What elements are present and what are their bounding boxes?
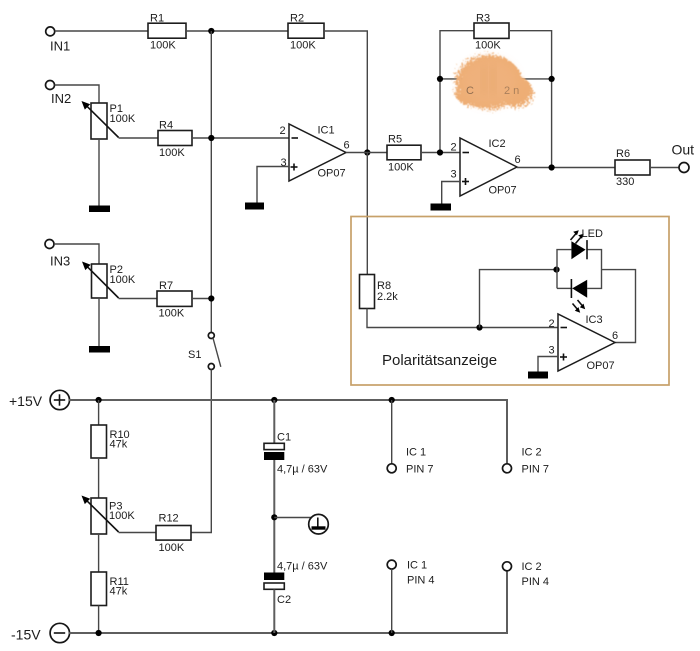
node rail/IC1pin7 — [389, 397, 395, 403]
wire +15V rail — [69, 400, 507, 464]
ground P1 — [89, 206, 110, 213]
svg-text:R3: R3 — [476, 12, 490, 24]
node junction R4/bus — [208, 135, 214, 141]
diode LED top (pointing right) — [571, 240, 587, 259]
wire IC2 pin3 to ground — [442, 182, 460, 205]
wire R5 to IC2 pin2 — [421, 152, 460, 154]
svg-text:3: 3 — [451, 169, 457, 181]
svg-text:4,7µ / 63V: 4,7µ / 63V — [277, 464, 328, 476]
switch S1 — [188, 333, 221, 370]
svg-text:100K: 100K — [290, 40, 316, 52]
wire feedback left vertical — [440, 31, 474, 153]
resistor R1 — [148, 13, 186, 52]
wire P2 to ground — [98, 298, 100, 346]
svg-text:OP07: OP07 — [587, 360, 615, 372]
svg-text:IN3: IN3 — [50, 254, 70, 269]
svg-text:IC 1: IC 1 — [406, 447, 426, 459]
wire across blob — [440, 78, 552, 80]
node junction R5/feedback — [437, 149, 443, 155]
svg-text:4,7µ / 63V: 4,7µ / 63V — [277, 561, 328, 573]
svg-text:100K: 100K — [159, 147, 185, 159]
wire R4 to IC1 pin2 — [192, 137, 289, 139]
op-amp IC3 — [558, 314, 615, 372]
svg-text:IN2: IN2 — [51, 91, 71, 106]
svg-text:100K: 100K — [110, 113, 136, 125]
wire P1 wiper to R4 — [119, 137, 158, 139]
svg-text:2.2k: 2.2k — [377, 291, 398, 303]
wire R1 to R2 — [186, 30, 288, 32]
svg-text:6: 6 — [344, 140, 350, 152]
svg-text:C2: C2 — [277, 594, 291, 606]
capacitor C2 — [264, 561, 328, 607]
wire IN2 to P1 — [55, 85, 99, 103]
svg-text:6: 6 — [515, 154, 521, 166]
svg-text:R4: R4 — [159, 120, 173, 132]
op-amp IC2 — [460, 138, 517, 197]
wire P1 to ground — [98, 139, 100, 206]
wire to earth symbol — [274, 517, 318, 519]
wire R10 top lead — [98, 400, 100, 425]
op-amp IC1 — [289, 124, 346, 181]
wire LED pair to IC3 output — [602, 270, 636, 343]
wire R6 to Out — [650, 167, 679, 169]
svg-text:2: 2 — [549, 318, 555, 330]
wire branch up to LED pair — [480, 270, 557, 328]
node earth junction — [271, 514, 277, 520]
wire S1 down to R12 — [191, 370, 211, 533]
svg-text:3: 3 — [549, 345, 555, 357]
potentiometer P2 — [82, 262, 136, 299]
terminal IC1 pin4 — [387, 560, 434, 587]
svg-text:R7: R7 — [159, 280, 173, 292]
svg-text:R5: R5 — [388, 134, 402, 146]
svg-text:+15V: +15V — [9, 393, 43, 409]
terminal IN1 — [46, 27, 71, 54]
blob watermark — [455, 55, 533, 109]
svg-text:100K: 100K — [109, 510, 135, 522]
wire IC1 pin4 stub — [391, 569, 393, 633]
potentiometer P1 — [82, 101, 136, 139]
wire IN1 to R1 — [55, 30, 148, 32]
node IC1 output junction — [364, 149, 370, 155]
node LED pair left — [553, 267, 559, 273]
svg-text:OP07: OP07 — [489, 185, 517, 197]
wire IC1 output to R5 — [346, 152, 387, 154]
node rail/C2 — [271, 630, 277, 636]
resistor R8 — [360, 275, 399, 309]
wire IC1 pin7 stub — [391, 400, 393, 464]
wire P3 to R11 — [98, 534, 100, 572]
wire R8 to IC3 pin2 — [367, 309, 558, 328]
terminal IC1 pin7 — [387, 447, 433, 476]
resistor R4 — [158, 120, 192, 160]
terminal IN2 — [46, 81, 72, 107]
wire IC3 pin3 to ground — [538, 357, 558, 373]
svg-text:-15V: -15V — [11, 627, 41, 643]
svg-text:Polaritätsanzeige: Polaritätsanzeige — [382, 352, 497, 369]
terminal Out — [672, 142, 695, 173]
terminal IC2 pin4 — [503, 561, 550, 588]
node rail/R10 — [96, 397, 102, 403]
diode LED bottom (pointing left) — [571, 279, 587, 298]
node junction R7/bus — [208, 295, 214, 301]
node junction output/feedback right — [549, 164, 555, 170]
node rail/C1 — [271, 397, 277, 403]
wire R10 to P3 — [98, 458, 100, 498]
node blob right — [549, 76, 555, 82]
svg-text:R2: R2 — [290, 13, 304, 25]
wire C2 bottom lead — [273, 590, 275, 633]
svg-text:R6: R6 — [616, 148, 630, 160]
resistor R7 — [157, 280, 192, 320]
node junction R1/R2 — [208, 28, 214, 34]
earth symbol — [309, 514, 329, 534]
svg-text:IC3: IC3 — [586, 314, 603, 326]
resistor R5 — [387, 134, 421, 174]
wire IC2 output to R6 — [517, 167, 615, 169]
svg-text:PIN 4: PIN 4 — [407, 575, 435, 587]
svg-text:C1: C1 — [277, 432, 291, 444]
svg-text:OP07: OP07 — [318, 168, 346, 180]
svg-text:S1: S1 — [188, 349, 201, 361]
svg-text:47k: 47k — [110, 439, 128, 451]
resistor R10 — [91, 425, 130, 458]
svg-text:100K: 100K — [110, 274, 136, 286]
wire C1 top lead — [273, 400, 275, 443]
resistor R11 — [91, 572, 129, 606]
svg-text:2: 2 — [280, 125, 286, 137]
node rail/IC1pin4 — [389, 630, 395, 636]
node junction LED branch — [476, 324, 482, 330]
wire LED loop left/top/right/bottom — [557, 250, 602, 289]
svg-text:C: C — [466, 85, 474, 97]
svg-text:IC 1: IC 1 — [407, 560, 427, 572]
svg-text:2: 2 — [451, 142, 457, 154]
svg-text:R1: R1 — [150, 13, 164, 25]
terminal IC2 pin7 — [503, 447, 550, 476]
wire R8 feed from output node — [366, 153, 368, 276]
terminal IN3 — [45, 240, 70, 269]
wire -15V rail — [69, 571, 507, 633]
svg-text:6: 6 — [612, 330, 618, 342]
LED arrows top — [571, 230, 584, 243]
svg-text:IC 2: IC 2 — [522, 447, 542, 459]
resistor R12 — [156, 513, 191, 555]
terminal -15V — [11, 623, 70, 642]
wire P3 wiper to R12 — [119, 532, 156, 534]
svg-text:100K: 100K — [159, 542, 185, 554]
terminal +15V — [9, 390, 70, 409]
svg-text:IC2: IC2 — [489, 138, 506, 150]
svg-text:IN1: IN1 — [50, 39, 70, 54]
svg-text:100K: 100K — [159, 308, 185, 320]
svg-text:100K: 100K — [150, 40, 176, 52]
node rail/R11 — [96, 630, 102, 636]
wire IN3 to P2 — [54, 244, 99, 264]
wire C1 to C2 — [273, 460, 275, 573]
wire main vertical bus — [210, 31, 212, 332]
svg-text:100K: 100K — [475, 40, 501, 52]
ground IC3 — [528, 372, 548, 379]
resistor R6 — [615, 148, 650, 188]
wire feedback right vertical — [509, 31, 552, 168]
resistor R3 — [474, 12, 509, 51]
svg-text:100K: 100K — [388, 162, 414, 174]
svg-text:PIN 7: PIN 7 — [522, 464, 550, 476]
svg-text:PIN 7: PIN 7 — [406, 464, 434, 476]
ground IC2 — [431, 204, 452, 211]
svg-text:LED: LED — [582, 228, 603, 240]
ground IC1 — [245, 203, 264, 210]
wire R2 to vertical drop — [324, 31, 367, 153]
svg-text:R12: R12 — [159, 513, 179, 525]
wire IC1 pin3 to ground — [257, 167, 289, 204]
svg-text:2 n: 2 n — [504, 85, 519, 97]
svg-text:47k: 47k — [110, 586, 128, 598]
capacitor C1 — [264, 432, 328, 476]
svg-text:330: 330 — [616, 176, 634, 188]
svg-text:IC 2: IC 2 — [522, 561, 542, 573]
ground P2 — [89, 346, 110, 353]
svg-text:Out: Out — [672, 142, 695, 158]
svg-text:PIN 4: PIN 4 — [522, 576, 550, 588]
resistor R2 — [288, 13, 324, 52]
node blob left — [437, 76, 443, 82]
wire P2 wiper to R7 — [119, 298, 157, 300]
wire R7 to bus — [192, 298, 211, 300]
LED arrows bottom — [573, 300, 586, 313]
potentiometer P3 — [82, 496, 136, 535]
wire R11 bottom lead — [98, 606, 100, 634]
svg-text:IC1: IC1 — [318, 125, 335, 137]
frame Polaritaetsanzeige box — [351, 217, 669, 386]
